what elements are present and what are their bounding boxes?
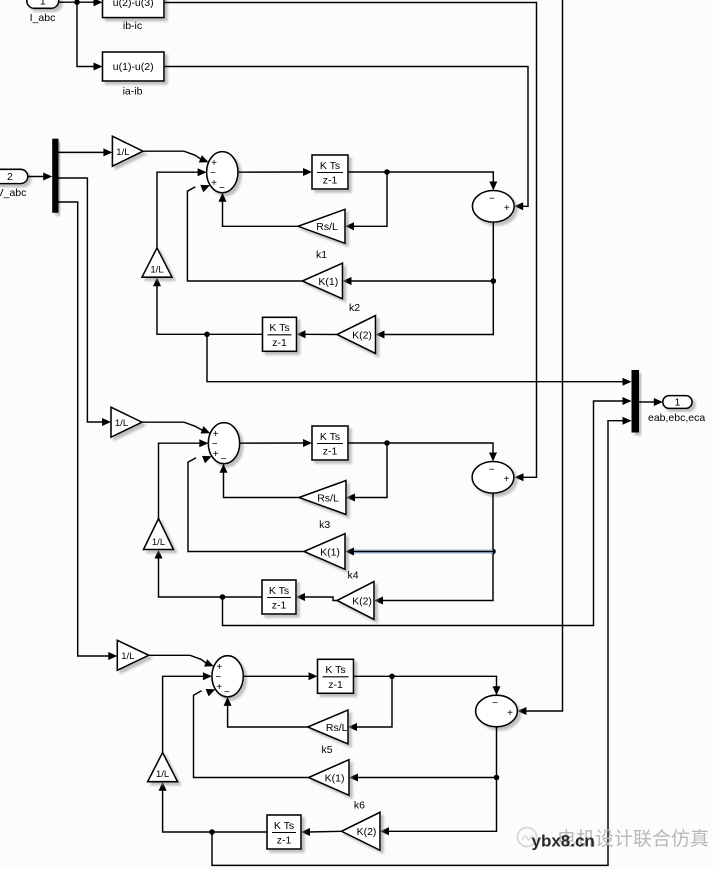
wire s1 output to mux [207,334,625,381]
gain Rs/L s3 [308,710,348,744]
wire s2 output to mux [223,401,626,626]
svg-text:K(2): K(2) [352,329,372,341]
gain Rs/L s1 [298,209,345,243]
svg-text:ybx8.cn: ybx8.cn [532,832,595,851]
wire K(2) to integrator s1b [304,333,338,335]
wire integrator out to sum S3b [354,676,497,687]
block ia-ib u(1)-u(2) [103,52,165,81]
gain 1/L up s2 [144,519,174,550]
svg-text:1/L: 1/L [152,537,165,548]
wire K(1) input s3 [356,777,497,779]
node junction s1b [204,332,210,338]
wire mux to output port [639,401,655,403]
svg-text:Rs/L: Rs/L [317,492,339,504]
gain 1/L up s3 [148,753,178,782]
sum junction S2b [472,462,514,494]
wire K(1) input s1 [350,280,494,282]
svg-text:ib-ic: ib-ic [123,20,142,32]
wire 1/L-up to sum (-) s2 [159,443,201,518]
sum junction S1b [472,191,514,223]
gain 1/L input gain s2a [111,407,142,437]
block discrete integrator K Ts/(z-1) s1b [263,317,297,351]
svg-text:z-1: z-1 [323,446,338,458]
svg-text:1/L: 1/L [150,265,163,276]
svg-text:1/L: 1/L [115,418,128,429]
svg-text:z-1: z-1 [323,175,338,187]
sum junction S3b [476,695,518,727]
svg-text:−: − [224,687,230,698]
wire K(1) to sum (+) s2 [188,458,304,552]
svg-text:K Ts: K Ts [269,585,289,597]
wire ia-ib output to sum1R plus input [164,67,528,207]
input port 2 V_abc [0,169,28,183]
svg-text:k4: k4 [347,570,358,582]
node junction K(1) tap s3 [494,775,500,781]
svg-text:K Ts: K Ts [320,160,340,172]
node junction s3b [209,829,215,835]
svg-text:u(2)-u(3): u(2)-u(3) [113,0,154,9]
svg-text:k2: k2 [349,302,360,314]
wire s3 output to mux [212,421,625,866]
block discrete integrator K Ts/(z-1) s2a [312,426,348,460]
wire junction to Rs/L s1 [352,172,387,226]
gain K(2) k2 [337,316,376,354]
block discrete integrator K Ts/(z-1) s2b [262,580,296,614]
svg-text:1: 1 [674,397,680,409]
svg-text:K Ts: K Ts [320,431,340,443]
node junction K(1) tap s1 [491,278,497,284]
wire demux out2 to gain 1/L (section2) [59,178,104,422]
svg-text:1/L: 1/L [156,769,169,780]
wire 1/L to sum (+) s2 [142,422,203,431]
svg-text:z-1: z-1 [328,679,343,691]
svg-text:−: − [219,183,225,194]
svg-text:K(1): K(1) [318,276,338,288]
svg-text:+: + [507,708,513,719]
block discrete integrator K Ts/(z-1) s1a [312,155,348,189]
svg-text:k3: k3 [319,519,330,531]
wire 1/L-up to sum (-) s3 [163,676,204,752]
svg-text:k5: k5 [321,744,332,756]
svg-text:+: + [504,474,510,485]
wire integrator b out s1 [157,285,263,334]
wire K(1) to sum (+) s3 [194,691,309,778]
svg-text:V_abc: V_abc [0,187,26,199]
wire Rs/L to sum (bottom -) s1 [223,201,299,226]
gain 1/L input gain s1a [112,136,143,166]
svg-text:z-1: z-1 [272,337,287,349]
wire junction to Rs/L s3 [355,676,392,727]
svg-text:+: + [216,682,222,693]
svg-text:K(2): K(2) [352,595,372,607]
wire junction to Rs/L s2 [353,443,387,498]
node junction s2a [384,440,390,446]
wire sum to discrete integrator s1a [238,171,304,173]
gain K(1) k1 [302,263,342,299]
svg-text:1/L: 1/L [116,147,129,158]
wire 1/L to sum (+) s3 [149,655,207,664]
svg-text:−: − [492,698,498,709]
wire sum to discrete integrator s2a [240,442,304,444]
wire K(2) to integrator s2b [303,597,337,601]
node junction under port1 [74,0,80,5]
mux Mux bar [632,370,640,433]
svg-text:+: + [504,203,510,214]
wire K(1) to sum (+) s1 [187,187,302,281]
svg-text:ia-ib: ia-ib [123,86,143,98]
svg-text:−: − [489,464,495,475]
gain K(2) k4 [337,582,374,620]
svg-text:K(2): K(2) [357,826,377,838]
gain 1/L input gain s3a [117,640,149,670]
wire sum S1b output down to K(2) [383,222,494,334]
sum junction S1a [207,152,238,193]
svg-text:+: + [213,449,219,460]
svg-text:1: 1 [40,0,46,8]
node junction s1a [384,169,390,175]
svg-text:K Ts: K Ts [274,820,294,832]
wire sum S3b output down to K(2) [387,727,497,832]
wire Rs/L to sum (bottom -) s3 [228,705,308,727]
gain K(1) k5 [309,760,349,796]
wire port1 to ib-ic block [59,1,100,3]
wire integrator b out s3 [163,790,267,832]
wire junction down to ia-ib [77,2,94,66]
svg-text:K Ts: K Ts [325,664,345,676]
svg-text:k1: k1 [316,249,327,261]
node junction s3a [389,674,395,680]
sum junction S2a [208,423,239,464]
wire 1/L-up to sum (-) s1 [157,172,198,248]
node junction K(1) tap s2 [490,549,496,555]
wire port2 to demux [28,176,44,178]
sum junction S3a [212,656,243,697]
svg-text:Rs/L: Rs/L [316,221,338,233]
gain K(2) k6 [342,812,381,850]
wire integrator out to sum S1b [348,172,493,182]
wire sum S2b output down to K(2) [381,493,493,600]
svg-text:2: 2 [7,171,13,183]
demux Demux bar [52,139,58,213]
wire sum to discrete integrator s3a [243,675,309,677]
svg-text:u(1)-u(2): u(1)-u(2) [113,61,154,73]
gain Rs/L s2 [299,481,346,515]
wire 1/L to sum (+) s1 [143,151,202,160]
svg-text:−: − [221,454,227,465]
svg-text:k6: k6 [354,800,365,812]
wire integrator b out s2 [159,558,263,598]
svg-text:Rs/L: Rs/L [326,722,348,734]
wire integrator out to sum S2b [348,443,493,453]
svg-text:K(1): K(1) [320,546,340,558]
wire K(2) to integrator s3b [308,830,342,833]
watermark logo circle [518,828,537,847]
node junction s2b [220,594,226,600]
input port 1 I_abc [27,0,59,8]
svg-text:K Ts: K Ts [269,322,289,334]
block discrete integrator K Ts/(z-1) s3a [318,659,354,693]
svg-text:z-1: z-1 [277,835,292,847]
wire ib-ic output to sum2R plus input [164,3,537,478]
svg-text:I_abc: I_abc [30,12,56,24]
wire demux out3 to gain 1/L (section3) [59,202,110,656]
output port 1 eab,ebc,eca [663,396,692,409]
svg-text:1/L: 1/L [121,651,134,662]
wire demux out1 to gain 1/L (section1) [59,151,105,153]
svg-text:z-1: z-1 [272,600,287,612]
svg-text:K(1): K(1) [325,772,345,784]
wire Rs/L to sum (bottom -) s2 [224,472,300,497]
wire selected (blue) to K(1) s2 [349,549,493,553]
block discrete integrator K Ts/(z-1) s3b [267,815,301,849]
block ib-ic u(2)-u(3) [103,0,165,18]
gain K(1) k3 [304,534,345,570]
svg-text:−: − [489,193,495,204]
wire top-right net to sum3R plus input [524,0,563,711]
svg-text:+: + [211,178,217,189]
gain 1/L up s1 [142,248,172,277]
svg-text:eab,ebc,eca: eab,ebc,eca [648,412,705,424]
